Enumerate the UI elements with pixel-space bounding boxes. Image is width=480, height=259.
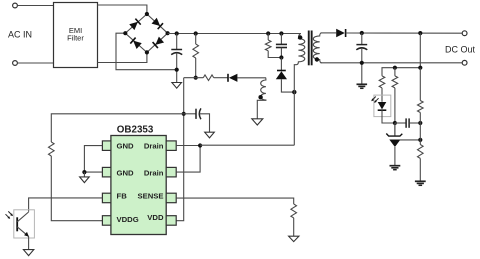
wire R5 to LED (381, 88, 383, 102)
node rail bulk cap (175, 31, 179, 35)
svg-text:GND: GND (117, 169, 135, 178)
pin box Drain 2 (166, 167, 176, 177)
ground earth output cap (357, 84, 368, 88)
wire DC+ rail (168, 33, 301, 35)
svg-text:AC IN: AC IN (8, 29, 32, 39)
wire AC bottom to EMI (18, 62, 54, 64)
wire DC+ out (346, 32, 462, 34)
diode D6 VDD (228, 74, 237, 82)
ground bulk cap (172, 83, 182, 89)
wire R9 to ground (293, 218, 295, 236)
bridge diode D4 (right to bottom) (153, 37, 165, 48)
resistor R1 startup (193, 34, 199, 78)
node GND junction (82, 170, 86, 174)
node negative rail bulk cap (175, 68, 179, 72)
pin box Drain 1 (166, 141, 176, 151)
terminal AC bottom (13, 61, 18, 66)
node aux polarity dot (258, 95, 262, 99)
node rail startup R (194, 31, 198, 35)
ground VDD cap (205, 132, 215, 138)
resistor R5 opto LED series (379, 76, 385, 88)
optocoupler light arrows (6, 211, 14, 219)
pin box VDDG (102, 216, 111, 226)
diode LED optocoupler (378, 102, 387, 110)
wire FB line (29, 198, 103, 212)
wire R2 to D6 (214, 77, 228, 79)
terminal DC out top (462, 31, 467, 36)
wire VDD horizontal (184, 77, 204, 79)
resistor R3 VDDG (49, 142, 55, 156)
wire secondary top to diode (321, 32, 337, 34)
diode D5 clamp (276, 58, 295, 93)
wire VDD cap line left (51, 114, 183, 142)
transformer aux winding (237, 78, 266, 119)
optocoupler LED arrows (371, 97, 378, 103)
resistor R8 divider lower (418, 140, 424, 181)
transformer core bar 2 (311, 31, 313, 66)
node output cap top (360, 31, 364, 35)
svg-text:VDDG: VDDG (117, 215, 139, 224)
zener Z1 TL431 (386, 123, 402, 165)
node output cap DC- junction (360, 61, 364, 65)
node drain junction (198, 143, 202, 147)
pin box GND 2 (102, 167, 111, 177)
capacitor C3 output (356, 33, 367, 84)
transistor Q1 optocoupler (17, 212, 29, 237)
node FB cap right (418, 121, 422, 125)
svg-text:OB2353: OB2353 (117, 125, 154, 136)
terminal AC top (13, 3, 18, 8)
node VDD line startup R (194, 76, 198, 80)
wire LED to FB cap line (382, 110, 395, 123)
wire bridge left vertex to negative rail (116, 33, 177, 69)
ground earth R8 (415, 181, 426, 185)
node snubber bottom (279, 55, 283, 59)
resistor R6 divider middle (392, 68, 398, 135)
node bridge right (166, 31, 170, 35)
wire emitter to ground (28, 236, 30, 249)
node line B middle R (393, 66, 397, 70)
node VDD cap tap (182, 112, 186, 116)
resistor R9 sense (291, 204, 297, 218)
svg-text:DC Out: DC Out (445, 44, 476, 54)
resistor R2 VDD series (203, 75, 213, 81)
svg-text:SENSE: SENSE (137, 192, 163, 201)
svg-text:GND: GND (117, 141, 135, 150)
bridge diode D2 (top to right) (151, 18, 163, 29)
EMI filter box (54, 3, 98, 68)
resistor R7 divider upper right (418, 68, 424, 140)
wire DC- out (321, 62, 462, 64)
node bridge top (145, 12, 149, 16)
transformer primary winding (294, 34, 305, 146)
node divider top (418, 31, 422, 35)
bridge rectifier diamond (125, 14, 167, 52)
node primary polarity dot (298, 35, 302, 39)
wire zener ref (400, 139, 420, 141)
wire AC top to EMI (18, 5, 54, 7)
pin box SENSE (166, 193, 176, 203)
RC snubber capacitor C2 (276, 34, 287, 58)
transformer core bar 1 (308, 31, 310, 66)
wire EMI top to bridge top (98, 5, 147, 14)
wire drain to transformer (200, 144, 294, 146)
pin box GND 1 (102, 141, 111, 151)
ground earth zener (390, 166, 401, 170)
ground aux winding (252, 119, 263, 125)
node bridge left (123, 31, 127, 35)
node rail snubber C (279, 31, 283, 35)
capacitor C1 bulk (171, 34, 182, 83)
terminal DC out bottom (462, 60, 467, 65)
node ref divider (418, 138, 422, 142)
ground optocoupler emitter (23, 250, 33, 256)
wire Drain tie (176, 146, 200, 173)
capacitor C5 feedback (395, 118, 420, 127)
wire Drain1 (176, 145, 200, 147)
optocoupler transistor box (14, 210, 35, 238)
diode D7 output rectifier (336, 29, 345, 37)
wire SENSE line (176, 198, 294, 204)
capacitor C4 VDD (184, 108, 210, 132)
RC snubber resistor R4 (265, 34, 281, 58)
node FB cap left (393, 121, 397, 125)
wire VDD vertical (176, 78, 184, 221)
ground IC GND (80, 177, 90, 183)
node line B right (418, 66, 422, 70)
wire GND2 pin (84, 171, 102, 173)
bridge diode D1 (left to top) (129, 19, 141, 30)
bridge diode D3 (bottom to left) (130, 38, 142, 49)
node drain clamp junction (292, 90, 296, 94)
wire R3 to VDDG pin (51, 156, 102, 221)
svg-text:Filter: Filter (67, 34, 84, 43)
optocoupler LED box (374, 95, 391, 117)
wire GND stub (83, 172, 85, 177)
svg-text:Drain: Drain (144, 169, 164, 178)
wire GND1 pin (84, 146, 102, 173)
pin box VDD (166, 216, 176, 226)
svg-text:FB: FB (117, 192, 128, 201)
wire line B divider feed (382, 33, 420, 76)
ground sense R (289, 236, 299, 241)
IC U1 OB2353 body (111, 136, 166, 235)
node secondary polarity dot (315, 57, 319, 61)
wire EMI bottom to bridge bottom vertex (98, 52, 147, 62)
node bridge bottom (145, 50, 149, 54)
node rail snubber R (266, 31, 270, 35)
svg-text:VDD: VDD (147, 213, 164, 222)
transformer secondary winding (313, 33, 321, 63)
svg-text:Drain: Drain (144, 141, 164, 150)
pin box FB (102, 193, 111, 203)
